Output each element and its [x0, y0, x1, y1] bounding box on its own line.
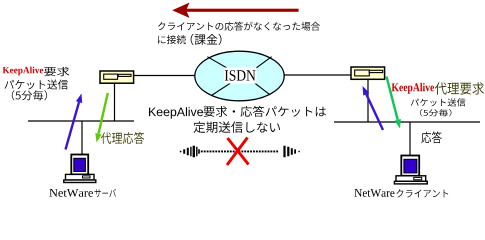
label: response: [421, 131, 441, 143]
wire: client drop from bus: [409, 122, 411, 156]
mark: red X (no periodic send): [227, 138, 249, 166]
wire: left router to ISDN cloud: [134, 75, 196, 77]
wire: server drop from bus: [81, 121, 83, 155]
label: center caption line 2: [194, 121, 280, 132]
label: center caption line 1: [149, 106, 326, 119]
label: NetWare server: [49, 189, 116, 197]
label: proxy reply: [101, 132, 144, 144]
wire: left router drop to LAN bus: [114, 83, 116, 121]
label: top caption line 1: [158, 22, 320, 31]
backbone: top dark-red return arrow: [172, 3, 298, 19]
link: idle WAN dashed line left transducer: [180, 146, 200, 158]
computer: NetWare client: [394, 156, 427, 184]
arrow: KeepAlive request from server (blue, up): [66, 94, 83, 150]
label: KeepAlive request (red): [3, 67, 70, 77]
arrow: KeepAlive proxy request (green dashed, down): [387, 77, 401, 129]
wire: right LAN bus: [334, 121, 480, 123]
ISDN WAN cloud: [195, 51, 284, 101]
arrow: response from client (blue, up): [363, 86, 384, 130]
router R1 (left dial-up router): [100, 71, 134, 83]
wire: right router drop to LAN bus: [367, 79, 369, 122]
router R2 (right dial-up router): [351, 67, 385, 79]
label: packet send 5min left: [5, 80, 69, 101]
label: KeepAlive proxy request (red+olive): [392, 82, 484, 94]
link: dashed idle line: [201, 151, 278, 153]
wire: ISDN cloud to right router: [284, 74, 352, 76]
label: top caption line 2: [158, 34, 222, 45]
link: idle WAN dashed line right transducer: [283, 146, 299, 158]
wire: left LAN bus: [28, 120, 134, 122]
label: NetWare client: [355, 189, 449, 198]
arrow: proxy reply from router (green, down): [95, 93, 108, 143]
computer: NetWare server: [64, 155, 96, 183]
label: packet send 5min right: [411, 98, 466, 116]
